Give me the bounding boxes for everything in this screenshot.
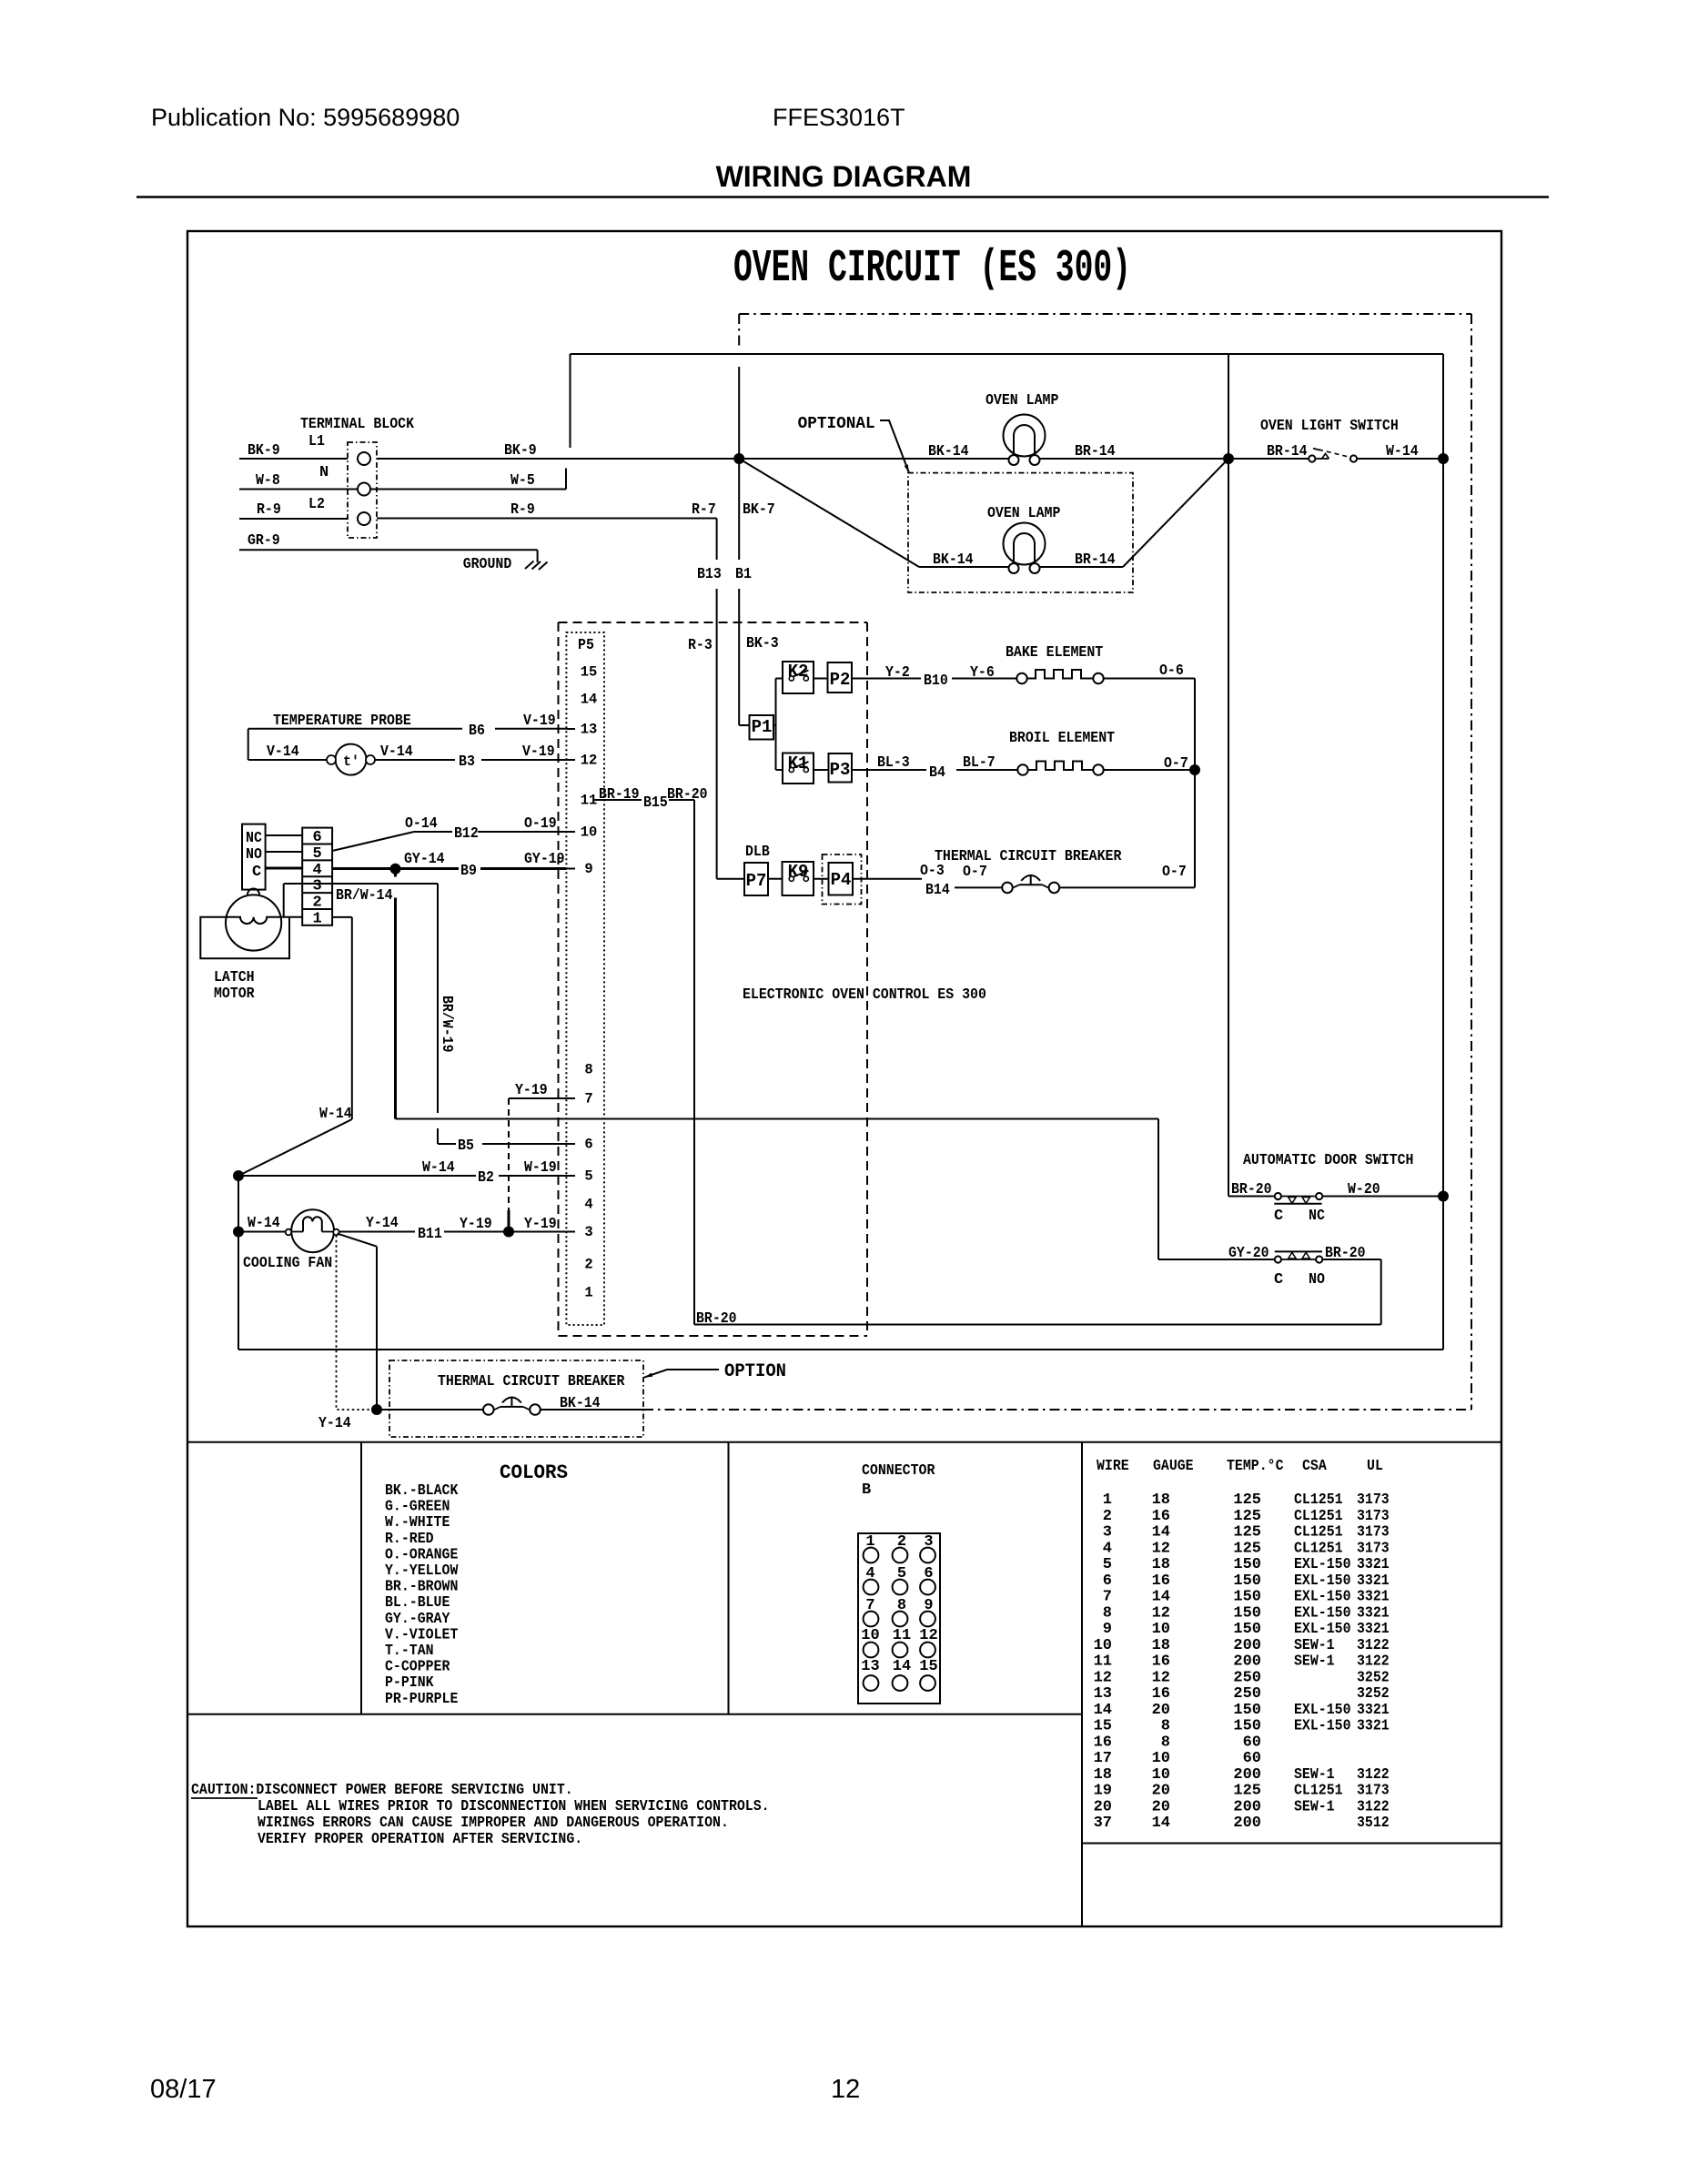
svg-text:10: 10 [861,1627,879,1644]
svg-text:T.-TAN: T.-TAN [385,1643,434,1660]
svg-text:BR/W-14: BR/W-14 [336,887,393,905]
svg-text:R-9: R-9 [257,501,281,519]
svg-text:LATCH: LATCH [214,969,255,986]
svg-text:OVEN LAMP: OVEN LAMP [986,392,1058,409]
svg-text:Publication No: 5995689980: Publication No: 5995689980 [151,104,460,131]
svg-text:14: 14 [581,692,598,708]
svg-text:WIRE: WIRE [1097,1458,1129,1475]
svg-text:CL1251: CL1251 [1294,1540,1343,1557]
svg-text:15: 15 [919,1658,937,1675]
svg-text:12: 12 [1152,1540,1170,1557]
svg-text:250: 250 [1233,1685,1261,1703]
svg-text:AUTOMATIC DOOR SWITCH: AUTOMATIC DOOR SWITCH [1243,1152,1414,1169]
svg-text:BK-9: BK-9 [504,442,537,460]
svg-text:BR-14: BR-14 [1267,443,1308,460]
svg-text:3512: 3512 [1357,1815,1390,1832]
svg-text:Y-6: Y-6 [970,664,995,682]
svg-text:7: 7 [584,1091,592,1107]
svg-text:EXL-150: EXL-150 [1294,1589,1351,1606]
svg-text:B1: B1 [735,566,752,583]
svg-text:150: 150 [1233,1621,1261,1638]
svg-text:CL1251: CL1251 [1294,1491,1343,1509]
svg-text:V-14: V-14 [380,743,413,761]
svg-text:11: 11 [893,1627,911,1644]
svg-text:3: 3 [1103,1524,1112,1542]
svg-text:MOTOR: MOTOR [214,986,255,1003]
svg-text:125: 125 [1233,1491,1261,1509]
svg-text:14: 14 [1152,1524,1170,1542]
svg-text:15: 15 [581,664,598,681]
svg-text:EXL-150: EXL-150 [1294,1718,1351,1735]
svg-text:BROIL ELEMENT: BROIL ELEMENT [1009,730,1115,747]
svg-text:7: 7 [1103,1589,1112,1606]
svg-text:12: 12 [919,1627,937,1644]
svg-text:19: 19 [1094,1783,1112,1800]
svg-text:C: C [1274,1208,1283,1225]
svg-text:C-COPPER: C-COPPER [385,1659,450,1676]
svg-text:3122: 3122 [1357,1798,1390,1815]
svg-text:G.-GREEN: G.-GREEN [385,1499,450,1516]
svg-text:3: 3 [924,1533,933,1551]
svg-text:18: 18 [1094,1766,1112,1784]
svg-text:B15: B15 [643,794,668,812]
svg-text:GY-14: GY-14 [404,851,445,868]
svg-text:08/17: 08/17 [150,2075,217,2104]
svg-text:Y-19: Y-19 [515,1082,548,1099]
svg-text:SEW-1: SEW-1 [1294,1798,1335,1815]
svg-text:OPTION: OPTION [724,1361,786,1382]
svg-text:W.-WHITE: W.-WHITE [385,1514,450,1532]
svg-text:EXL-150: EXL-150 [1294,1604,1351,1622]
svg-text:9: 9 [584,861,592,877]
svg-text:20: 20 [1152,1798,1170,1815]
svg-text:O-3: O-3 [920,863,945,880]
svg-text:P7: P7 [746,871,767,891]
svg-text:4: 4 [865,1565,874,1582]
svg-text:COLORS: COLORS [500,1461,568,1484]
svg-text:BK.-BLACK: BK.-BLACK [385,1482,459,1500]
svg-text:3173: 3173 [1357,1540,1390,1557]
svg-text:3173: 3173 [1357,1524,1390,1542]
svg-text:17: 17 [1094,1750,1112,1767]
svg-text:8: 8 [1103,1604,1112,1622]
svg-text:20: 20 [1152,1702,1170,1719]
svg-text:125: 125 [1233,1783,1261,1800]
svg-text:N: N [319,464,329,481]
svg-text:O-19: O-19 [524,815,557,833]
svg-text:125: 125 [1233,1524,1261,1542]
svg-text:B11: B11 [418,1226,442,1243]
svg-text:TERMINAL BLOCK: TERMINAL BLOCK [300,416,415,433]
svg-text:14: 14 [893,1658,911,1675]
svg-text:B13: B13 [697,566,722,583]
svg-text:Y-14: Y-14 [318,1415,351,1432]
svg-text:7: 7 [865,1597,874,1614]
svg-text:2: 2 [584,1257,592,1273]
svg-text:CL1251: CL1251 [1294,1524,1343,1542]
svg-text:TEMPERATURE PROBE: TEMPERATURE PROBE [273,713,411,730]
svg-text:EXL-150: EXL-150 [1294,1702,1351,1719]
svg-text:3321: 3321 [1357,1604,1390,1622]
svg-text:Y-19: Y-19 [524,1216,557,1233]
svg-text:9: 9 [1103,1621,1112,1638]
svg-text:P1: P1 [752,717,773,737]
svg-text:16: 16 [1152,1653,1170,1671]
svg-text:14: 14 [1152,1815,1170,1832]
svg-text:C: C [252,864,261,881]
svg-text:P2: P2 [830,670,851,690]
svg-text:5: 5 [897,1565,906,1582]
svg-text:16: 16 [1094,1734,1112,1751]
svg-text:W-19: W-19 [524,1159,557,1177]
svg-text:9: 9 [924,1597,933,1614]
svg-text:3122: 3122 [1357,1637,1390,1654]
svg-text:150: 150 [1233,1702,1261,1719]
svg-text:37: 37 [1094,1815,1112,1832]
svg-text:P5: P5 [578,637,594,654]
svg-text:20: 20 [1094,1798,1112,1815]
svg-text:14: 14 [1094,1702,1112,1719]
svg-text:125: 125 [1233,1508,1261,1525]
svg-text:C: C [1274,1271,1283,1289]
svg-text:250: 250 [1233,1669,1261,1686]
svg-text:3: 3 [584,1224,592,1240]
svg-text:W-14: W-14 [1386,443,1419,460]
svg-text:5: 5 [312,845,321,863]
svg-text:THERMAL CIRCUIT BREAKER: THERMAL CIRCUIT BREAKER [438,1373,625,1390]
svg-text:O-7: O-7 [963,864,987,881]
svg-text:6: 6 [584,1137,592,1153]
svg-text:150: 150 [1233,1589,1261,1606]
svg-text:R-9: R-9 [510,501,535,519]
svg-text:R-3: R-3 [688,637,713,654]
svg-text:3321: 3321 [1357,1621,1390,1638]
svg-text:GY-20: GY-20 [1228,1245,1269,1262]
svg-text:R.-RED: R.-RED [385,1531,434,1548]
svg-text:OVEN LAMP: OVEN LAMP [987,505,1060,522]
svg-text:GROUND: GROUND [463,556,512,573]
svg-text:18: 18 [1152,1556,1170,1573]
svg-text:PR-PURPLE: PR-PURPLE [385,1691,458,1708]
svg-text:B4: B4 [929,764,945,782]
svg-text:FFES3016T: FFES3016T [773,104,905,131]
svg-text:ELECTRONIC OVEN CONTROL ES 300: ELECTRONIC OVEN CONTROL ES 300 [743,986,986,1004]
svg-text:6: 6 [312,829,321,846]
svg-text:UL: UL [1367,1458,1383,1475]
svg-text:B5: B5 [458,1137,474,1155]
svg-text:200: 200 [1233,1766,1261,1784]
svg-text:V-19: V-19 [523,713,556,730]
svg-text:3173: 3173 [1357,1508,1390,1525]
svg-text:16: 16 [1152,1572,1170,1590]
svg-text:B12: B12 [454,825,479,843]
svg-text:10: 10 [581,824,598,841]
svg-text:4: 4 [1103,1540,1112,1557]
svg-text:W-8: W-8 [256,472,280,490]
svg-text:O-7: O-7 [1162,864,1187,881]
svg-text:4: 4 [584,1197,592,1213]
svg-text:60: 60 [1243,1750,1261,1767]
svg-text:R-7: R-7 [692,501,716,519]
svg-text:14: 14 [1152,1589,1170,1606]
svg-text:BK-9: BK-9 [248,442,280,460]
svg-text:V.-VIOLET: V.-VIOLET [385,1626,458,1643]
svg-text:SEW-1: SEW-1 [1294,1637,1335,1654]
svg-text:BR.-BROWN: BR.-BROWN [385,1579,458,1596]
svg-text:OVEN LIGHT SWITCH: OVEN LIGHT SWITCH [1260,418,1399,435]
svg-text:200: 200 [1233,1798,1261,1815]
svg-text:OPTIONAL: OPTIONAL [798,415,875,433]
svg-text:1: 1 [1103,1491,1112,1509]
svg-text:3321: 3321 [1357,1718,1390,1735]
svg-text:NC: NC [1309,1208,1325,1225]
svg-text:200: 200 [1233,1815,1261,1832]
svg-text:10: 10 [1152,1766,1170,1784]
svg-text:B9: B9 [460,863,477,880]
svg-text:3321: 3321 [1357,1702,1390,1719]
svg-text:Y-19: Y-19 [460,1216,492,1233]
svg-text:W-14: W-14 [248,1215,280,1232]
svg-text:12: 12 [1152,1669,1170,1686]
svg-text:3252: 3252 [1357,1669,1390,1686]
svg-text:COOLING FAN: COOLING FAN [243,1255,332,1272]
svg-text:150: 150 [1233,1718,1261,1735]
svg-text:60: 60 [1243,1734,1261,1751]
svg-text:W-14: W-14 [319,1106,352,1123]
svg-text:BK-7: BK-7 [743,501,775,519]
svg-text:2: 2 [312,895,321,912]
svg-text:BL-3: BL-3 [877,754,910,772]
svg-text:BK-14: BK-14 [560,1395,601,1412]
svg-text:B2: B2 [478,1169,494,1187]
svg-text:P4: P4 [831,870,852,890]
svg-text:BL.-BLUE: BL.-BLUE [385,1594,450,1612]
svg-text:150: 150 [1233,1572,1261,1590]
svg-text:5: 5 [584,1168,592,1185]
svg-text:TEMP.°C: TEMP.°C [1227,1458,1284,1475]
svg-text:4: 4 [312,862,321,879]
svg-text:GY-19: GY-19 [524,851,565,868]
svg-text:LABEL ALL WIRES PRIOR TO DISCO: LABEL ALL WIRES PRIOR TO DISCONNECTION W… [258,1798,770,1815]
svg-text:6: 6 [1103,1572,1112,1590]
svg-text:CONNECTOR: CONNECTOR [862,1462,935,1480]
svg-text:NO: NO [1309,1271,1325,1289]
svg-text:L2: L2 [308,496,325,513]
svg-text:SEW-1: SEW-1 [1294,1653,1335,1671]
svg-text:10: 10 [1094,1637,1112,1654]
svg-text:WIRING DIAGRAM: WIRING DIAGRAM [716,160,972,193]
svg-text:16: 16 [1152,1685,1170,1703]
svg-text:20: 20 [1152,1783,1170,1800]
svg-text:3173: 3173 [1357,1491,1390,1509]
svg-text:BR/W-19: BR/W-19 [438,996,455,1053]
svg-text:3122: 3122 [1357,1766,1390,1784]
svg-text:3122: 3122 [1357,1653,1390,1671]
svg-text:11: 11 [1094,1653,1112,1671]
svg-text:B10: B10 [924,672,948,690]
svg-text:NO: NO [246,846,262,864]
svg-text:W-14: W-14 [422,1159,455,1177]
svg-text:3252: 3252 [1357,1685,1390,1703]
svg-text:18: 18 [1152,1637,1170,1654]
svg-text:10: 10 [1152,1750,1170,1767]
svg-text:O.-ORANGE: O.-ORANGE [385,1546,458,1563]
svg-text:P3: P3 [830,760,851,780]
svg-text:3321: 3321 [1357,1556,1390,1573]
svg-text:SEW-1: SEW-1 [1294,1766,1335,1784]
svg-text:3173: 3173 [1357,1783,1390,1800]
svg-text:12: 12 [831,2075,860,2104]
svg-text:5: 5 [1103,1556,1112,1573]
svg-text:BAKE ELEMENT: BAKE ELEMENT [1006,644,1103,662]
svg-text:B3: B3 [459,753,475,771]
svg-text:O-6: O-6 [1159,662,1184,680]
svg-text:1: 1 [865,1533,874,1551]
svg-text:10: 10 [1152,1621,1170,1638]
svg-text:BR-19: BR-19 [599,786,640,804]
svg-text:BK-14: BK-14 [928,443,969,460]
svg-text:B14: B14 [925,882,950,899]
svg-text:t': t' [343,753,359,770]
svg-text:W-5: W-5 [510,472,535,490]
svg-text:200: 200 [1233,1637,1261,1654]
svg-text:GY.-GRAY: GY.-GRAY [385,1611,450,1628]
svg-text:EXL-150: EXL-150 [1294,1556,1351,1573]
svg-text:150: 150 [1233,1556,1261,1573]
svg-text:CL1251: CL1251 [1294,1783,1343,1800]
svg-text:OVEN CIRCUIT (ES 300): OVEN CIRCUIT (ES 300) [733,242,1131,295]
svg-text:CSA: CSA [1302,1458,1327,1475]
svg-text:BR-14: BR-14 [1075,443,1116,460]
svg-text:8: 8 [1161,1718,1170,1735]
svg-text:12: 12 [1152,1604,1170,1622]
svg-text:1: 1 [312,910,321,927]
svg-text:GR-9: GR-9 [248,532,280,550]
svg-text:V-19: V-19 [522,743,555,761]
svg-text:EXL-150: EXL-150 [1294,1621,1351,1638]
svg-text:NC: NC [246,830,262,847]
svg-text:V-14: V-14 [267,743,299,761]
svg-text:3321: 3321 [1357,1589,1390,1606]
svg-text:2: 2 [897,1533,906,1551]
svg-text:8: 8 [897,1597,906,1614]
svg-text:B: B [862,1481,871,1499]
svg-text:6: 6 [924,1565,933,1582]
svg-text:18: 18 [1152,1491,1170,1509]
svg-text:BK-3: BK-3 [746,635,779,652]
svg-text:O-14: O-14 [405,815,438,833]
svg-text:DLB: DLB [745,844,770,861]
svg-text:P-PINK: P-PINK [385,1674,434,1692]
svg-text:WIRINGS ERRORS CAN CAUSE IMPRO: WIRINGS ERRORS CAN CAUSE IMPROPER AND DA… [258,1815,729,1832]
svg-text:125: 125 [1233,1540,1261,1557]
svg-text:16: 16 [1152,1508,1170,1525]
svg-text:200: 200 [1233,1653,1261,1671]
svg-text:B6: B6 [469,723,485,740]
svg-text:150: 150 [1233,1604,1261,1622]
svg-text:GAUGE: GAUGE [1153,1458,1194,1475]
svg-text:3321: 3321 [1357,1572,1390,1590]
svg-text:2: 2 [1103,1508,1112,1525]
svg-text:13: 13 [581,722,598,738]
svg-text:VERIFY PROPER OPERATION AFTER: VERIFY PROPER OPERATION AFTER SERVICING. [258,1831,582,1848]
svg-text:BR-20: BR-20 [667,786,708,804]
svg-text:15: 15 [1094,1718,1112,1735]
svg-text:8: 8 [584,1062,592,1078]
svg-text:CL1251: CL1251 [1294,1508,1343,1525]
svg-text:Y-2: Y-2 [885,664,910,682]
svg-text:L1: L1 [308,433,325,450]
svg-text:12: 12 [581,753,598,769]
svg-text:1: 1 [584,1285,592,1301]
svg-text:BL-7: BL-7 [963,754,996,772]
svg-text:12: 12 [1094,1669,1112,1686]
svg-text:13: 13 [1094,1685,1112,1703]
svg-text:CAUTION:DISCONNECT POWER BEFOR: CAUTION:DISCONNECT POWER BEFORE SERVICIN… [191,1782,573,1799]
svg-text:8: 8 [1161,1734,1170,1751]
svg-text:EXL-150: EXL-150 [1294,1572,1351,1590]
svg-text:Y.-YELLOW: Y.-YELLOW [385,1562,459,1580]
svg-text:13: 13 [861,1658,879,1675]
svg-text:3: 3 [312,878,321,895]
svg-text:Y-14: Y-14 [366,1215,399,1232]
